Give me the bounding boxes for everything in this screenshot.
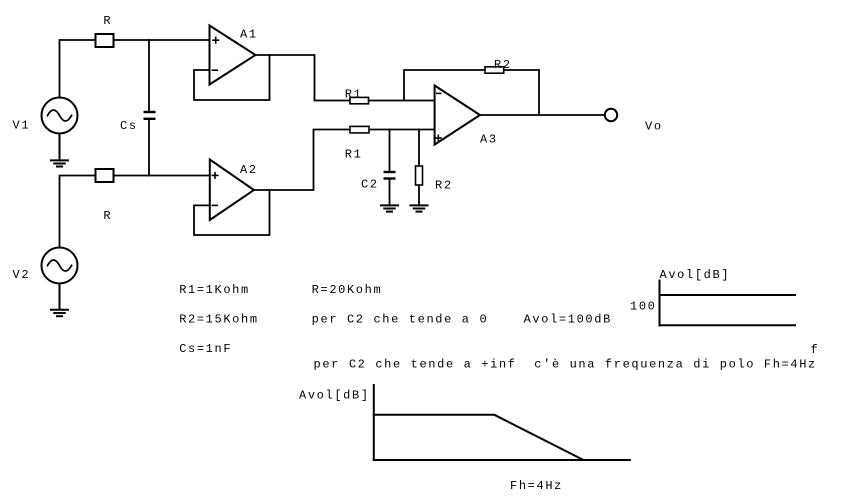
svg-text:R1: R1 <box>345 148 363 162</box>
plot1 y-axis <box>659 281 661 326</box>
capacitor C2 <box>384 172 396 179</box>
svg-text:100: 100 <box>630 300 657 314</box>
svg-text:R: R <box>103 209 112 223</box>
svg-text:Fh=4Hz: Fh=4Hz <box>510 479 563 493</box>
svg-text:Vo: Vo <box>645 120 663 134</box>
wire R2 branch <box>418 130 420 206</box>
svg-text:Cs: Cs <box>120 119 138 133</box>
svg-text:Cs=1nF: Cs=1nF <box>179 342 232 356</box>
resistor R bottom <box>96 169 114 182</box>
resistor R top <box>96 34 114 47</box>
svg-text:R1=1Kohm R=20Kohm: R1=1Kohm R=20Kohm <box>179 283 382 297</box>
resistor R2 shunt <box>416 166 423 185</box>
plot1 gain level line 100 <box>660 294 796 296</box>
svg-text:R1: R1 <box>345 88 363 102</box>
svg-text:R2: R2 <box>494 58 512 72</box>
svg-text:R2=15Kohm per C2 che tend: R2=15Kohm per C2 che tende a 0 Avol=100d… <box>179 313 612 327</box>
wire top input V1 to A1 plus <box>60 40 210 98</box>
svg-text:R2: R2 <box>435 179 453 193</box>
terminal Vo <box>605 109 617 121</box>
svg-text:C2: C2 <box>361 178 379 192</box>
wire A1 feedback <box>194 55 270 100</box>
wire A1 output to A3 minus <box>256 55 435 101</box>
wire C2 branch <box>389 130 391 173</box>
wire second input V2 to A2 plus <box>60 176 210 248</box>
svg-text:A2: A2 <box>240 163 258 177</box>
svg-text:Avol[dB]: Avol[dB] <box>660 268 731 282</box>
resistor R1 lower <box>350 126 369 132</box>
op-amp A1 <box>210 26 256 85</box>
ground C2 <box>380 205 399 211</box>
wire A2 feedback <box>194 190 270 235</box>
resistor R1 upper <box>350 97 369 103</box>
svg-text:Avol[dB]: Avol[dB] <box>299 389 370 403</box>
svg-text:f: f <box>811 343 820 357</box>
svg-text:per C2 che tende a +inf c'è u: per C2 che tende a +inf c'è una frequenz… <box>314 358 817 372</box>
wire A2 output to A3 plus <box>254 130 435 191</box>
svg-text:R: R <box>103 14 112 28</box>
ground R2 <box>410 205 429 211</box>
wire Cs lower <box>148 119 150 176</box>
ground V1 <box>50 134 69 167</box>
wire A3 output <box>480 114 605 116</box>
svg-text:A3: A3 <box>480 133 498 147</box>
wire Cs upper <box>148 40 150 112</box>
svg-text:V2: V2 <box>13 268 31 282</box>
svg-text:V1: V1 <box>13 119 31 133</box>
op-amp A3 <box>435 86 480 145</box>
source V1 <box>42 98 78 134</box>
op-amp A2 <box>210 160 254 221</box>
wire C2 to ground <box>389 179 391 206</box>
plot2 f-axis <box>374 459 630 461</box>
plot2 response curve <box>374 415 583 460</box>
svg-text:A1: A1 <box>240 28 258 42</box>
ground V2 <box>50 284 69 317</box>
plot2 y-axis <box>373 385 375 460</box>
source V2 <box>42 248 78 284</box>
resistor R2 feedback <box>485 67 504 73</box>
wire A3 feedback <box>404 70 539 115</box>
capacitor Cs <box>144 112 156 119</box>
plot1 f-axis <box>660 324 796 326</box>
